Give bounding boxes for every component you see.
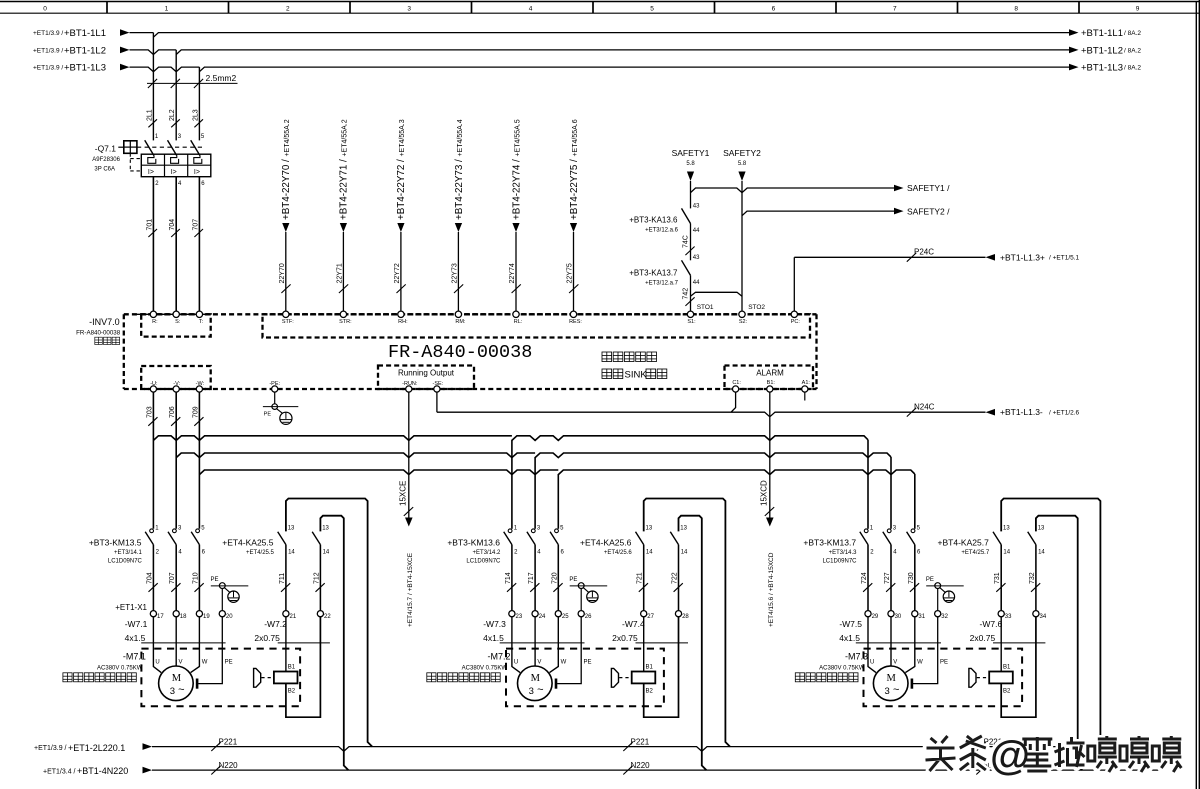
wire 730 (914, 545, 916, 611)
svg-text:6: 6 (772, 6, 776, 13)
svg-text:M: M (531, 673, 541, 684)
svg-text:+BT1-L1.3-: +BT1-L1.3- (1000, 407, 1043, 417)
svg-text:B2: B2 (646, 688, 654, 694)
motor lead W (550, 617, 559, 673)
relay contact +ET4-KA25.6 1 (636, 532, 644, 545)
wire 727 (890, 545, 892, 611)
net N220 line (152, 769, 1160, 771)
wire 711 (285, 545, 287, 611)
svg-text:706: 706 (169, 406, 176, 418)
net label N220 (976, 766, 985, 775)
motor -M7.3 circle M 3~ (873, 666, 908, 701)
svg-text:FR-A840-00038: FR-A840-00038 (388, 342, 532, 363)
inverter terminal STF: (283, 311, 289, 317)
svg-text:AC380V 0.75KW: AC380V 0.75KW (462, 665, 508, 671)
wire 721 (643, 545, 645, 611)
svg-text:2L2: 2L2 (169, 109, 176, 121)
inverter control terminal box (263, 314, 811, 337)
svg-text:W: W (202, 659, 208, 665)
svg-text:+BT1-L1.3+: +BT1-L1.3+ (1000, 252, 1045, 262)
terminal -X1:23 (509, 611, 515, 617)
wire 22Y70 (285, 232, 287, 311)
signal arrow 22Y74 (512, 223, 519, 232)
svg-text:M: M (172, 673, 182, 684)
svg-text:15XCE: 15XCE (398, 481, 407, 506)
svg-text:RM:: RM: (455, 319, 466, 325)
svg-text:B2: B2 (1003, 688, 1011, 694)
wire 707 (198, 177, 200, 312)
svg-text:27: 27 (647, 614, 654, 620)
cable -W7.5 marker line (856, 642, 941, 644)
motor lead W (191, 617, 200, 673)
inverter terminal R: (150, 311, 156, 317)
net label N220 (623, 766, 632, 775)
svg-text:LC1D09N7C: LC1D09N7C (108, 559, 143, 565)
svg-text:/ 8A.2: / 8A.2 (1124, 48, 1141, 55)
svg-text:15XCD: 15XCD (759, 480, 768, 506)
svg-text:I>: I> (148, 169, 154, 176)
svg-text:-Q7.1: -Q7.1 (95, 144, 117, 154)
svg-text:28: 28 (682, 614, 689, 620)
svg-text:711: 711 (279, 573, 286, 584)
svg-text:4x1.5: 4x1.5 (839, 633, 860, 643)
svg-text:74C: 74C (682, 235, 689, 248)
svg-text:-W7.6: -W7.6 (980, 619, 1003, 629)
svg-text:703: 703 (146, 406, 153, 418)
wire 22Y71 (342, 232, 344, 311)
brake supply elbow outer (644, 499, 730, 747)
net N24C line (437, 412, 986, 417)
wire 732 (1035, 545, 1037, 611)
terminal PE (935, 611, 941, 617)
svg-text:+BT1-1L3: +BT1-1L3 (64, 63, 106, 74)
wire 701 (152, 177, 154, 312)
svg-text:4: 4 (529, 6, 533, 13)
svg-text:19: 19 (203, 614, 210, 620)
terminal -X1:28 (675, 611, 681, 617)
svg-text:P221: P221 (219, 738, 238, 747)
wire PC to P24C (793, 257, 795, 311)
svg-text:2L1: 2L1 (146, 109, 153, 121)
svg-text:SAFETY2: SAFETY2 (723, 148, 761, 158)
svg-text:727: 727 (884, 572, 891, 584)
svg-text:31: 31 (918, 614, 925, 620)
svg-text:29: 29 (872, 614, 879, 620)
svg-text:+ET4/25.7: +ET4/25.7 (961, 550, 990, 556)
wire 2L2 vertical (175, 50, 177, 140)
brake return loop (1001, 617, 1036, 717)
motor lead PE to frame (913, 617, 938, 684)
terminal PE (578, 611, 584, 617)
svg-text:22Y71: 22Y71 (336, 263, 343, 283)
wire 1L2 (130, 50, 1071, 55)
svg-text:V: V (893, 659, 897, 665)
net +BT1-1L2 right label (1069, 47, 1079, 54)
inverter terminal RM: (455, 311, 461, 317)
svg-text:8: 8 (1014, 6, 1018, 13)
terminal -X1:21 (283, 611, 289, 617)
wire 724 (867, 545, 869, 611)
motor lead U (512, 617, 520, 673)
svg-text:N220: N220 (219, 761, 239, 770)
cable reference 15XCE from -RUN (408, 392, 410, 470)
svg-text:S1:: S1: (687, 319, 696, 325)
wire 742 (690, 275, 692, 311)
inverter terminal S2 (739, 311, 745, 317)
terminal -X1:19 (196, 611, 202, 617)
svg-text:2: 2 (286, 6, 290, 13)
bus U phase (153, 436, 868, 441)
svg-text:+ET1-2L220.1: +ET1-2L220.1 (68, 743, 125, 753)
brake supply elbow outer (1001, 499, 1105, 747)
motor lead U (868, 617, 876, 673)
svg-text:14: 14 (1003, 550, 1010, 556)
wire 22Y74 (515, 232, 517, 311)
svg-text:2x0.75: 2x0.75 (612, 633, 638, 643)
svg-text:U: U (514, 659, 518, 665)
motor lead PE to frame (198, 617, 222, 684)
svg-text:-INV7.0: -INV7.0 (89, 317, 120, 327)
wire 710 (198, 545, 200, 611)
wire 706 (175, 392, 177, 529)
svg-text:3: 3 (407, 6, 411, 13)
wire SAFETY1 branch (691, 188, 895, 193)
svg-text:PE: PE (940, 659, 948, 665)
inverter terminal S: (173, 311, 179, 317)
relay contact +BT4-KA25.7 2 (1028, 532, 1036, 545)
brake link dashed (261, 677, 273, 679)
svg-text:R:: R: (152, 319, 158, 325)
terminal -X1:25 (555, 611, 561, 617)
svg-text:SINK: SINK (625, 370, 648, 381)
inverter output terminal box U V W (141, 366, 211, 389)
svg-text:32: 32 (941, 614, 948, 620)
motor name Chinese (63, 673, 72, 682)
svg-text:+BT3-KM13.7: +BT3-KM13.7 (803, 538, 856, 548)
svg-text:N24C: N24C (914, 403, 935, 412)
svg-text:44: 44 (693, 280, 700, 286)
svg-text:-M7.1: -M7.1 (123, 652, 146, 662)
terminal PE (219, 611, 225, 617)
svg-text:+ET1/3.9 /: +ET1/3.9 / (33, 65, 63, 72)
inverter Running Output box (378, 366, 474, 390)
svg-text:SAFETY1: SAFETY1 (672, 148, 710, 158)
svg-text:ALARM: ALARM (756, 369, 784, 378)
brake link dashed (619, 677, 631, 679)
terminal -X1:17 (150, 611, 156, 617)
svg-text:9: 9 (1136, 6, 1140, 13)
svg-text:S:: S: (175, 319, 181, 325)
svg-text:722: 722 (672, 572, 679, 584)
cable -W7.6 marker line (993, 642, 1045, 644)
inverter label Chinese inverter (95, 337, 103, 344)
wire 722 (678, 545, 680, 611)
wire 1L3 (130, 67, 1071, 72)
svg-text:13: 13 (1003, 525, 1010, 531)
svg-text:SAFETY2 /: SAFETY2 / (907, 206, 950, 216)
svg-text:LC1D09N7C: LC1D09N7C (466, 559, 501, 565)
svg-text:B1: B1 (288, 665, 296, 671)
breaker Q7.1 linkage bracket dashed (129, 153, 131, 171)
svg-text:18: 18 (180, 614, 187, 620)
svg-text:B1: B1 (1003, 665, 1011, 671)
svg-text:W: W (561, 659, 567, 665)
wire 22Y75 (573, 232, 575, 311)
svg-text:PE: PE (210, 577, 218, 583)
svg-text:PE: PE (569, 577, 577, 583)
svg-text:P221: P221 (631, 738, 650, 747)
cable reference 15XCD from B1 (769, 392, 771, 470)
svg-text:43: 43 (693, 255, 700, 261)
wire 1L1 (130, 33, 1071, 38)
svg-text:1: 1 (165, 6, 169, 13)
svg-text:13: 13 (288, 525, 295, 531)
inverter note control logic Chinese (602, 352, 612, 362)
svg-text:+ET1/3.9 /: +ET1/3.9 / (33, 30, 63, 37)
wire 2L3 vertical (198, 67, 200, 140)
drawing frame top border (0, 1, 1200, 3)
svg-text:20: 20 (226, 614, 233, 620)
svg-text:S2:: S2: (739, 319, 748, 325)
svg-text:22Y72: 22Y72 (394, 263, 401, 283)
motor -M7.2 circle M 3~ (518, 666, 553, 701)
wire 712 (319, 545, 321, 611)
svg-text:3: 3 (170, 686, 175, 697)
breaker Q7.1 contact blades (145, 140, 154, 155)
wire 717 (534, 545, 536, 611)
svg-text:44: 44 (693, 228, 700, 234)
svg-text:/ +ET1/2.6: / +ET1/2.6 (1049, 410, 1080, 417)
svg-text:PE: PE (926, 577, 934, 583)
wire 709 (198, 392, 200, 529)
svg-text:+ET4/25.6: +ET4/25.6 (604, 550, 633, 556)
wire 704 (152, 545, 154, 611)
contactor +BT3-KM13.5 pole 3 (196, 529, 200, 533)
svg-text:25: 25 (562, 614, 569, 620)
brake return loop (644, 617, 679, 717)
svg-text:707: 707 (169, 572, 176, 584)
inverter note SINK mode (602, 369, 612, 379)
wire motor2 pole drops (511, 440, 513, 529)
svg-text:I>: I> (171, 169, 177, 176)
motor lead PE to frame (557, 617, 581, 684)
brake coil B (989, 672, 1013, 684)
bus W phase (199, 470, 914, 475)
svg-text:B1:: B1: (767, 380, 776, 386)
svg-text:A9F28306: A9F28306 (92, 157, 120, 163)
terminal -X1:30 (888, 611, 894, 617)
svg-text:B2: B2 (288, 688, 296, 694)
svg-text:13: 13 (646, 525, 653, 531)
drawing frame right border (1195, 2, 1197, 789)
svg-text:730: 730 (908, 572, 915, 584)
svg-text:I>: I> (194, 169, 200, 176)
signal arrow 22Y75 (570, 223, 577, 232)
svg-text:N220: N220 (631, 761, 651, 770)
brake supply elbow inner (679, 516, 707, 770)
cable -W7.3 marker line (500, 642, 585, 644)
relay contact +ET4-KA25.5 2 (312, 532, 320, 545)
svg-text:21: 21 (290, 614, 297, 620)
terminal -X1:31 (912, 611, 918, 617)
wire 720 (557, 545, 559, 611)
signal arrow 22Y72 (397, 223, 404, 232)
junction box dashed outline motor 3 (864, 649, 1023, 707)
net label P221 (211, 742, 220, 751)
svg-text:PE: PE (264, 412, 272, 418)
signal arrow 22Y70 (282, 223, 289, 232)
svg-text:-M7.3: -M7.3 (845, 652, 868, 662)
contactor +BT3-KM13.7 pole 3 (911, 529, 915, 533)
svg-text:V: V (537, 659, 541, 665)
svg-text:22Y74: 22Y74 (509, 263, 516, 283)
cable -W7.2 marker line (278, 642, 330, 644)
svg-text:+ET1-X1: +ET1-X1 (115, 603, 147, 612)
svg-text:+ET1/3.4 /: +ET1/3.4 / (43, 768, 76, 775)
brake horn symbol (254, 668, 261, 687)
svg-text:A1:: A1: (802, 380, 811, 386)
svg-text:P24C: P24C (914, 248, 934, 257)
svg-text:17: 17 (157, 614, 164, 620)
svg-text:14: 14 (323, 550, 330, 556)
svg-text:STO2: STO2 (748, 304, 765, 311)
svg-text:+BT4-KA25.7: +BT4-KA25.7 (938, 538, 990, 548)
svg-text:-W7.5: -W7.5 (839, 619, 862, 629)
wire link S1-S2 bridge (691, 292, 743, 296)
svg-text:13: 13 (322, 525, 329, 531)
svg-text:+BT3-KA13.7: +BT3-KA13.7 (629, 269, 678, 278)
inverter terminal PC (791, 311, 797, 317)
brake supply elbow inner (1036, 516, 1082, 770)
svg-text:@: @ (990, 732, 1030, 778)
net label N220 (211, 766, 220, 775)
watermark toutiao@xuechenggagaga (926, 732, 1182, 778)
inverter ALARM box (725, 366, 814, 390)
motor lead W (905, 617, 914, 673)
cable -W7.1 marker line (141, 642, 225, 644)
svg-text:14: 14 (681, 550, 688, 556)
svg-text:Running Output: Running Output (398, 369, 455, 378)
svg-text:731: 731 (994, 572, 1001, 584)
inverter PE earth connection (274, 392, 276, 404)
svg-text:704: 704 (169, 219, 176, 231)
svg-text:24: 24 (539, 614, 546, 620)
svg-text:FR-A840-00038: FR-A840-00038 (76, 330, 121, 337)
svg-text:23: 23 (516, 614, 523, 620)
svg-text:PE: PE (225, 659, 233, 665)
svg-text:732: 732 (1029, 572, 1036, 584)
svg-text:-W7.4: -W7.4 (622, 619, 645, 629)
contactor +BT3-KM13.5 pole 2 (173, 529, 177, 533)
net label P221 (976, 742, 985, 751)
svg-text:U: U (155, 659, 159, 665)
svg-text:+BT3-KM13.5: +BT3-KM13.5 (89, 538, 142, 548)
brake supply elbow outer (286, 499, 372, 747)
wire S2 vertical (741, 181, 743, 311)
wire 703 (152, 392, 154, 529)
svg-text:+ET4/15.7 / +BT4-15XCE: +ET4/15.7 / +BT4-15XCE (407, 552, 414, 627)
wire 731 (1000, 545, 1002, 611)
svg-text:742: 742 (682, 288, 689, 300)
wire 707 (175, 545, 177, 611)
inverter INV7.0 outline dashed box (123, 314, 125, 389)
svg-text:+ET3/12.a.6: +ET3/12.a.6 (645, 228, 679, 234)
motor lead V (175, 617, 177, 666)
motor lead V (890, 617, 892, 666)
motor -M7.1 circle M 3~ (159, 666, 194, 701)
svg-text:B1: B1 (646, 665, 654, 671)
wire 714 (511, 545, 513, 611)
svg-text:43: 43 (693, 203, 700, 209)
svg-text:5: 5 (650, 6, 654, 13)
svg-text:U: U (870, 659, 874, 665)
terminal -X1:22 (317, 611, 323, 617)
svg-text:W: W (917, 659, 923, 665)
svg-text:STO1: STO1 (697, 304, 714, 311)
inverter terminal RES: (570, 311, 576, 317)
svg-text:13: 13 (680, 525, 687, 531)
breaker thermal element pole 3 (194, 156, 202, 164)
svg-text:/ 8A.2: / 8A.2 (1124, 30, 1141, 37)
contactor +BT3-KM13.6 pole 2 (531, 529, 535, 533)
svg-text:4x1.5: 4x1.5 (483, 633, 504, 643)
svg-text:3: 3 (885, 686, 890, 697)
svg-text:+BT3-KA13.6: +BT3-KA13.6 (629, 216, 678, 225)
brake horn symbol (969, 668, 976, 687)
svg-text:+BT3-KM13.6: +BT3-KM13.6 (447, 538, 500, 548)
terminal -X1:34 (1033, 611, 1039, 617)
svg-text:712: 712 (313, 572, 320, 584)
svg-text:+ET4-KA25.6: +ET4-KA25.6 (580, 538, 632, 548)
svg-text:14: 14 (288, 550, 295, 556)
svg-text:+ET3/14.1: +ET3/14.1 (114, 550, 143, 556)
bus V phase (176, 453, 891, 458)
wire 22Y73 (457, 232, 459, 311)
svg-text:704: 704 (146, 572, 153, 584)
brake coil B (274, 672, 298, 684)
svg-text:2L3: 2L3 (192, 109, 199, 121)
svg-text:7: 7 (893, 6, 897, 13)
svg-text:+ET4-KA25.5: +ET4-KA25.5 (222, 538, 274, 548)
brake coil feed wire (285, 617, 287, 672)
wire A1 stub (804, 392, 806, 401)
relay contact +ET4-KA25.6 2 (670, 532, 678, 545)
contactor +BT3-KM13.7 pole 2 (887, 529, 891, 533)
junction box dashed outline motor 1 (141, 649, 300, 707)
brake coil feed wire (643, 617, 645, 672)
svg-text:+BT1-4N220: +BT1-4N220 (77, 766, 128, 776)
svg-text:709: 709 (192, 406, 199, 418)
svg-text:720: 720 (551, 572, 558, 584)
svg-text:LC1D09N7C: LC1D09N7C (822, 559, 857, 565)
wire 704 (175, 177, 177, 312)
contactor +BT3-KM13.6 pole 3 (555, 529, 559, 533)
svg-text:-W7.3: -W7.3 (483, 619, 506, 629)
svg-text:SAFETY1 /: SAFETY1 / (907, 183, 950, 193)
svg-text:5.8: 5.8 (686, 161, 695, 167)
svg-text:26: 26 (585, 614, 592, 620)
wire safety chain vertical S1 (690, 181, 692, 208)
contactor +BT3-KM13.5 pole 1 (150, 529, 154, 533)
terminal -X1:27 (641, 611, 647, 617)
wire 2L1 vertical (152, 33, 154, 141)
net P221 line (152, 747, 1160, 752)
svg-text:-W7.1: -W7.1 (125, 619, 148, 629)
inverter terminal RL: (513, 311, 519, 317)
net +BT1-1L1 right label (1069, 29, 1079, 36)
svg-text:2.5mm2: 2.5mm2 (206, 73, 237, 83)
svg-text:-M7.2: -M7.2 (487, 652, 510, 662)
